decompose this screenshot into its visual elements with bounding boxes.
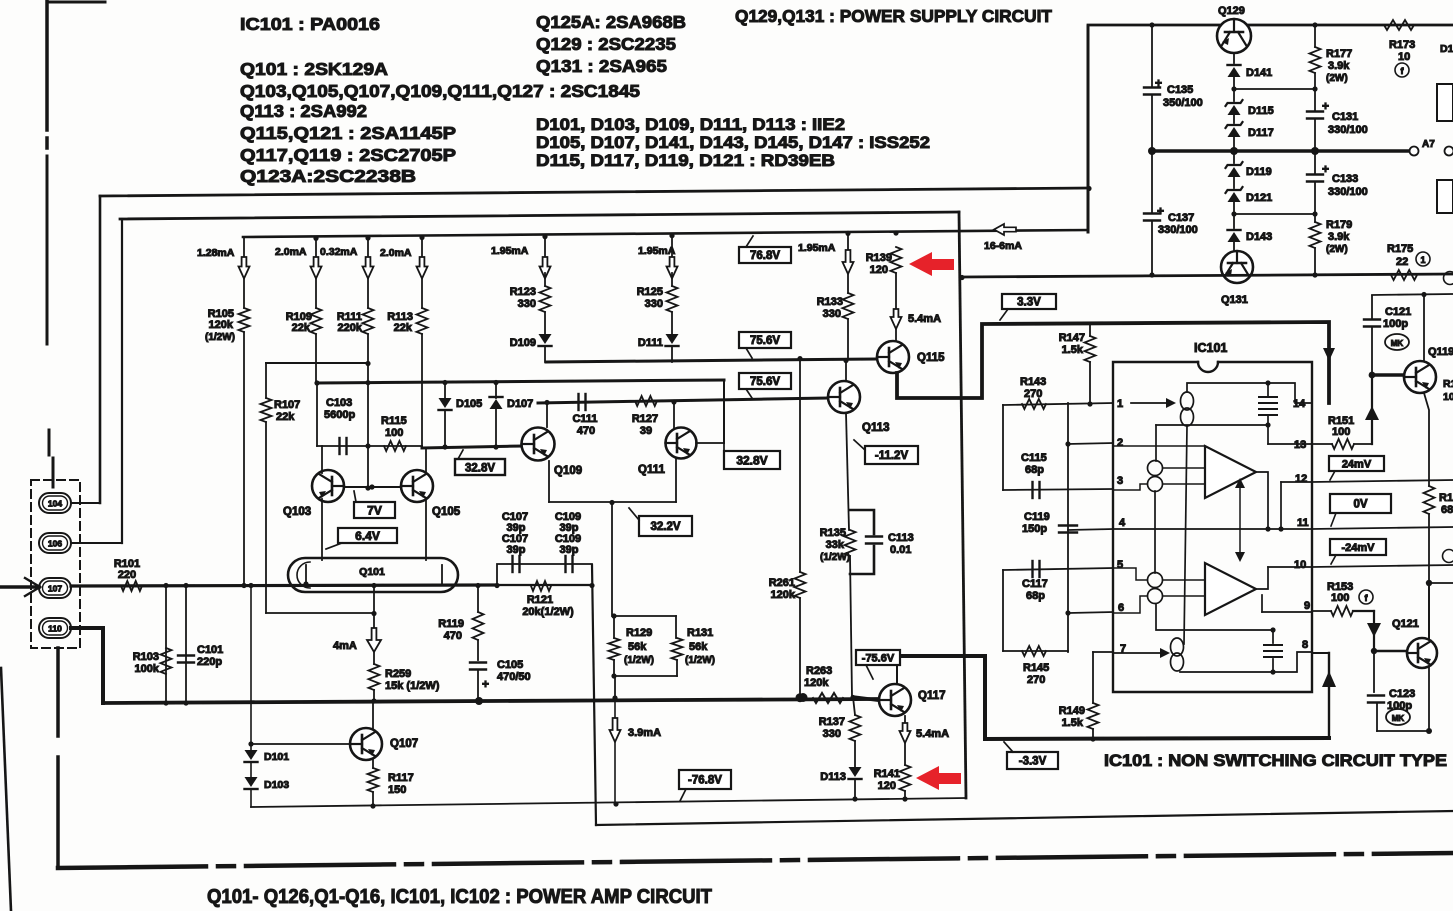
svg-text:10: 10 [1443,391,1453,403]
svg-text:Q131: Q131 [1221,294,1248,306]
svg-text:470: 470 [577,425,595,437]
svg-text:D109: D109 [510,337,536,349]
svg-text:D101: D101 [264,751,289,763]
svg-text:C111: C111 [572,413,597,425]
svg-text:7V: 7V [367,503,382,517]
svg-text:D105, D107, D141, D143, D145,: D105, D107, D141, D143, D145, D147 : ISS… [536,134,930,152]
svg-text:R131: R131 [687,627,713,639]
svg-text:-3.3V: -3.3V [1019,756,1047,768]
svg-text:100: 100 [385,427,403,439]
svg-text:106: 106 [48,539,62,549]
svg-text:IC101 : NON SWITCHING CIRCUIT: IC101 : NON SWITCHING CIRCUIT TYPE [1104,752,1447,770]
svg-text:D105: D105 [456,398,482,410]
svg-text:R143: R143 [1020,376,1046,388]
svg-text:150p: 150p [1022,523,1047,535]
svg-text:R121: R121 [527,594,553,606]
svg-text:1.5k: 1.5k [1062,717,1084,729]
svg-text:2: 2 [1117,437,1123,449]
svg-text:R175: R175 [1387,243,1413,255]
svg-text:IC101 : PA0016: IC101 : PA0016 [240,14,380,34]
svg-text:R127: R127 [632,413,658,425]
svg-text:R107: R107 [274,399,300,411]
svg-text:R129: R129 [626,627,652,639]
svg-text:6: 6 [1118,602,1124,614]
svg-text:Q111: Q111 [638,464,665,476]
svg-text:Q125A: 2SA968B: Q125A: 2SA968B [536,12,686,32]
svg-text:R141: R141 [874,768,900,780]
svg-text:C105: C105 [497,659,523,671]
svg-text:32.8V: 32.8V [736,453,767,467]
svg-text:D1: D1 [1440,43,1453,55]
svg-text:33k: 33k [826,539,845,551]
svg-text:68: 68 [1441,504,1453,516]
svg-text:8: 8 [1302,639,1308,651]
svg-text:220p: 220p [197,656,222,668]
svg-text:330: 330 [823,308,841,320]
svg-text:R133: R133 [817,296,843,308]
svg-text:R135: R135 [820,527,846,539]
svg-text:D115: D115 [1248,105,1274,117]
svg-text:Q103: Q103 [283,506,311,518]
svg-text:10: 10 [1398,51,1410,63]
svg-text:R125: R125 [637,286,663,298]
svg-text:1.95mA: 1.95mA [638,245,676,257]
svg-text:22: 22 [1396,256,1408,268]
svg-text:C103: C103 [326,397,352,409]
svg-text:107: 107 [48,584,62,594]
svg-text:C123: C123 [1389,688,1415,700]
svg-text:220k: 220k [338,322,363,334]
svg-text:R177: R177 [1326,48,1352,60]
svg-text:Q107: Q107 [390,738,418,750]
svg-text:330: 330 [518,298,536,310]
svg-text:R123: R123 [510,286,536,298]
svg-text:C131: C131 [1332,111,1358,123]
svg-text:0.01: 0.01 [890,544,911,556]
svg-text:3.9mA: 3.9mA [628,727,661,739]
svg-text:330/100: 330/100 [1328,186,1368,198]
svg-text:C133: C133 [1332,173,1358,185]
svg-text:22k: 22k [276,411,295,423]
svg-text:120k: 120k [771,589,796,601]
svg-text:-11.2V: -11.2V [875,450,909,462]
svg-text:R139: R139 [866,252,892,264]
svg-text:R117: R117 [388,772,414,784]
svg-text:R15: R15 [1439,492,1453,504]
svg-text:Q113: Q113 [862,422,890,434]
svg-text:5600p: 5600p [324,409,355,421]
svg-text:4mA: 4mA [333,640,357,652]
svg-text:11: 11 [1297,517,1309,529]
svg-text:A7: A7 [1422,139,1435,150]
svg-text:-76.8V: -76.8V [688,775,722,787]
svg-text:D113: D113 [820,771,846,783]
svg-text:9: 9 [1304,600,1310,612]
svg-text:76.8V: 76.8V [750,250,780,262]
svg-text:0.32mA: 0.32mA [320,246,358,258]
svg-text:Q121: Q121 [1392,618,1419,630]
svg-text:0V: 0V [1353,499,1367,511]
svg-text:1.28mA: 1.28mA [197,247,235,259]
svg-text:D117: D117 [1248,127,1274,139]
svg-text:D119: D119 [1246,166,1272,178]
svg-text:110: 110 [48,624,62,634]
svg-text:1.5k: 1.5k [1062,344,1084,356]
svg-text:39p: 39p [560,544,579,556]
svg-text:Q113 : 2SA992: Q113 : 2SA992 [240,101,367,121]
svg-text:120k: 120k [804,677,829,689]
svg-text:C115: C115 [1021,452,1047,464]
svg-text:5.4mA: 5.4mA [916,728,949,740]
svg-text:R115: R115 [381,415,407,427]
svg-text:3: 3 [1117,475,1123,487]
svg-text:5.4mA: 5.4mA [908,313,941,325]
svg-text:Q123A:2SC2238B: Q123A:2SC2238B [240,166,416,186]
svg-text:+: + [1322,99,1329,113]
svg-text:Q101- Q126,Q1-Q16, IC101, IC10: Q101- Q126,Q1-Q16, IC101, IC102 : POWER … [207,886,712,908]
svg-text:330: 330 [823,728,841,740]
svg-text:-24mV: -24mV [1341,542,1375,554]
svg-text:3.3V: 3.3V [1017,297,1041,309]
svg-text:1: 1 [1420,255,1425,265]
svg-text:56k: 56k [628,641,647,653]
svg-text:104: 104 [48,499,62,509]
svg-text:C117: C117 [1022,578,1048,590]
svg-text:D107: D107 [507,398,533,410]
svg-text:3.9k: 3.9k [1328,231,1350,243]
svg-text:(2W): (2W) [1326,244,1348,255]
svg-text:330/100: 330/100 [1328,124,1368,136]
svg-text:R179: R179 [1326,219,1352,231]
svg-text:24mV: 24mV [1342,458,1372,470]
svg-text:D111: D111 [638,337,663,349]
svg-text:R147: R147 [1059,332,1085,344]
svg-text:C101: C101 [197,644,223,656]
svg-text:R137: R137 [819,716,845,728]
svg-text:100: 100 [1332,426,1350,438]
svg-text:120: 120 [878,780,896,792]
svg-text:4: 4 [1119,517,1126,529]
svg-text:Q115,Q121 : 2SA1145P: Q115,Q121 : 2SA1145P [240,123,456,143]
svg-text:2.0mA: 2.0mA [275,246,307,258]
svg-text:39: 39 [640,425,652,437]
svg-text:MK: MK [1392,714,1405,723]
svg-text:+: + [1322,162,1329,176]
svg-text:D115, D117, D119, D121 : RD39E: D115, D117, D119, D121 : RD39EB [536,152,835,170]
svg-text:Q131 : 2SA965: Q131 : 2SA965 [536,56,667,76]
svg-text:Q109: Q109 [554,465,582,477]
svg-text:D143: D143 [1246,231,1272,243]
svg-text:R263: R263 [806,665,832,677]
svg-text:(1/2W): (1/2W) [685,655,715,666]
svg-text:(1/2W): (1/2W) [624,655,654,666]
svg-text:Q101: Q101 [359,566,385,578]
svg-text:D101, D103, D109, D111, D113 :: D101, D103, D109, D111, D113 : IIE2 [536,116,845,134]
svg-text:120: 120 [870,264,888,276]
svg-text:+: + [1157,204,1164,218]
svg-text:Q117: Q117 [918,690,946,702]
svg-text:56k: 56k [689,641,708,653]
svg-text:(1/2W): (1/2W) [205,332,235,343]
svg-text:Q119: Q119 [1428,346,1453,358]
svg-text:470/50: 470/50 [497,671,531,683]
svg-text:6.4V: 6.4V [355,529,380,543]
svg-text:(1/2W): (1/2W) [820,552,850,563]
svg-text:MK: MK [1391,339,1404,348]
svg-text:100p: 100p [1383,318,1408,330]
svg-text:1.95mA: 1.95mA [798,242,836,254]
svg-text:-75.6V: -75.6V [862,652,895,664]
svg-text:R173: R173 [1389,39,1415,51]
svg-text:22k: 22k [394,322,413,334]
svg-text:Q129 : 2SC2235: Q129 : 2SC2235 [536,34,676,54]
svg-text:350/100: 350/100 [1163,97,1203,109]
svg-text:IC101: IC101 [1194,341,1227,355]
svg-text:20k(1/2W): 20k(1/2W) [522,606,574,618]
svg-text:39p: 39p [507,544,526,556]
svg-text:2.0mA: 2.0mA [380,247,412,259]
svg-text:150: 150 [388,784,406,796]
svg-text:Q103,Q105,Q107,Q109,Q111,Q127: Q103,Q105,Q107,Q109,Q111,Q127 : 2SC1845 [240,81,640,101]
svg-text:Q101 : 2SK129A: Q101 : 2SK129A [240,59,388,79]
svg-text:Q117,Q119 : 2SC2705P: Q117,Q119 : 2SC2705P [240,145,456,165]
svg-text:+: + [1155,76,1162,90]
svg-text:120k: 120k [209,319,234,331]
svg-text:3.9k: 3.9k [1328,60,1350,72]
svg-text:Q105: Q105 [432,506,461,518]
svg-text:R145: R145 [1023,662,1049,674]
svg-text:220: 220 [118,569,136,581]
svg-text:100: 100 [1331,592,1349,604]
svg-text:13: 13 [1294,439,1306,451]
svg-text:1: 1 [1117,398,1123,410]
svg-text:R1: R1 [1443,378,1453,390]
svg-text:D103: D103 [264,779,289,791]
svg-text:22k: 22k [292,322,311,334]
svg-text:32.8V: 32.8V [465,463,495,475]
svg-text:68p: 68p [1026,590,1045,602]
svg-text:10: 10 [1294,559,1306,571]
svg-text:R259: R259 [385,668,411,680]
svg-text:D141: D141 [1246,67,1272,79]
svg-text:470: 470 [444,630,462,642]
svg-text:Q129,Q131 : POWER SUPPLY CIRCU: Q129,Q131 : POWER SUPPLY CIRCUIT [735,6,1052,26]
svg-text:C121: C121 [1385,306,1411,318]
svg-text:100k: 100k [135,663,160,675]
svg-text:R261: R261 [769,577,795,589]
svg-text:+: + [482,677,489,691]
svg-text:R149: R149 [1059,705,1085,717]
svg-text:R119: R119 [438,618,464,630]
svg-text:330: 330 [645,298,663,310]
svg-text:75.6V: 75.6V [750,335,780,347]
svg-text:C113: C113 [888,532,914,544]
svg-text:C135: C135 [1167,84,1193,96]
svg-text:C119: C119 [1024,511,1050,523]
svg-text:D121: D121 [1246,192,1272,204]
svg-text:270: 270 [1027,674,1045,686]
svg-text:75.6V: 75.6V [750,376,780,388]
svg-text:Q115: Q115 [917,352,945,364]
svg-text:16-6mA: 16-6mA [984,240,1022,252]
svg-text:5: 5 [1117,559,1123,571]
svg-text:Q129: Q129 [1218,5,1245,17]
svg-text:68p: 68p [1025,464,1044,476]
svg-text:15k (1/2W): 15k (1/2W) [385,680,440,692]
svg-text:32.2V: 32.2V [650,521,680,533]
svg-text:12: 12 [1295,473,1307,485]
svg-text:(2W): (2W) [1326,73,1348,84]
svg-text:330/100: 330/100 [1158,224,1198,236]
svg-text:R103: R103 [133,651,159,663]
svg-text:270: 270 [1024,388,1042,400]
svg-text:C137: C137 [1168,212,1194,224]
svg-text:1.95mA: 1.95mA [491,245,529,257]
